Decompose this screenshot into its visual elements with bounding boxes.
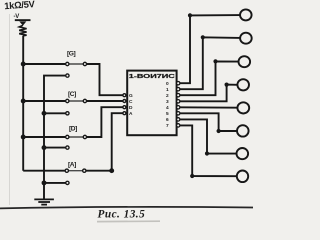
terminal T5 bbox=[237, 125, 249, 136]
svg-text:[A]: [A] bbox=[68, 162, 76, 169]
wire out6 bbox=[180, 119, 237, 153]
wire out5 bbox=[180, 113, 237, 131]
wire out3 bbox=[180, 85, 238, 102]
node gnd-stub3 bbox=[42, 145, 47, 150]
svg-text:D: D bbox=[129, 105, 133, 111]
wire out0 bbox=[180, 15, 240, 83]
svg-text:Рис. 13.5: Рис. 13.5 bbox=[98, 209, 146, 221]
wire out4 bbox=[180, 106, 238, 108]
node out5 bend bbox=[217, 129, 221, 133]
node out1 bend bbox=[201, 35, 205, 39]
svg-text:C: C bbox=[129, 99, 133, 105]
stub contact 3 bbox=[66, 146, 69, 149]
caption rule bbox=[0, 207, 253, 209]
svg-text:[D]: [D] bbox=[69, 126, 77, 133]
node bus-G bbox=[21, 62, 26, 67]
svg-text:6: 6 bbox=[166, 117, 169, 123]
wire out7 bbox=[180, 125, 237, 176]
wire bus to switch G bbox=[23, 63, 65, 65]
svg-text:0: 0 bbox=[166, 81, 169, 87]
wire bus to switch C bbox=[23, 100, 65, 102]
svg-text:3: 3 bbox=[166, 99, 169, 105]
stub contact 1 bbox=[66, 74, 69, 77]
wire stub3 bbox=[44, 147, 66, 149]
node out3 bend bbox=[225, 83, 229, 87]
scan smudge under caption bbox=[97, 220, 160, 222]
node bus-C bbox=[21, 99, 26, 104]
wire switch D to pin D bbox=[87, 107, 123, 137]
paper background bbox=[0, 0, 253, 226]
svg-text:1-ВОИ7ИС: 1-ВОИ7ИС bbox=[129, 74, 175, 80]
wire stub2 bbox=[44, 112, 66, 114]
svg-text:1: 1 bbox=[166, 87, 169, 93]
node gnd-stub2 bbox=[42, 111, 47, 116]
supply -V terminal bbox=[14, 14, 31, 26]
terminal T0 bbox=[240, 9, 252, 20]
terminal T2 bbox=[239, 56, 251, 67]
node A-corner bbox=[109, 168, 114, 173]
wire switch A to pin A bbox=[86, 113, 122, 171]
ground bus (second bus) bbox=[44, 76, 66, 199]
wire bus to switch A bbox=[23, 170, 65, 172]
stub contact 2 bbox=[66, 112, 69, 115]
svg-text:4: 4 bbox=[166, 105, 169, 111]
node bus-D bbox=[21, 135, 26, 140]
wire out1 bbox=[180, 37, 241, 89]
node out7 bend bbox=[190, 174, 194, 178]
terminal T1 bbox=[240, 33, 252, 44]
IC output pin numbers bbox=[166, 81, 169, 129]
terminal T3 bbox=[237, 79, 249, 90]
svg-text:[G]: [G] bbox=[67, 51, 76, 58]
IC input pin names bbox=[129, 93, 133, 117]
wire switch G to pin G bbox=[87, 64, 123, 95]
terminal T4 bbox=[237, 102, 249, 113]
pin D bubble bbox=[123, 106, 126, 109]
svg-text:2: 2 bbox=[166, 93, 169, 99]
stub contact 4 bbox=[66, 181, 69, 184]
ground bbox=[34, 199, 54, 204]
svg-text:5: 5 bbox=[166, 111, 169, 117]
wire stub4 bbox=[44, 182, 66, 184]
svg-text:G: G bbox=[129, 93, 133, 99]
node out6 bend bbox=[205, 151, 209, 155]
resistor R1 1kΩ bbox=[19, 25, 26, 36]
node out2 bend bbox=[213, 59, 217, 63]
decoder IC U1 body bbox=[127, 71, 176, 136]
svg-text:[C]: [C] bbox=[68, 91, 76, 98]
pin A bubble bbox=[123, 112, 126, 115]
terminal T6 bbox=[237, 148, 249, 159]
wire bus to switch D bbox=[23, 136, 65, 138]
node out0 bend bbox=[188, 13, 192, 17]
svg-text:7: 7 bbox=[166, 123, 169, 129]
terminal T7 bbox=[237, 171, 248, 183]
wire out2 bbox=[180, 61, 239, 95]
switch SC contacts bbox=[66, 99, 87, 102]
wire switch C to pin C bbox=[87, 100, 123, 102]
output pin bubbles bbox=[177, 82, 180, 128]
svg-text:-V: -V bbox=[14, 14, 20, 20]
svg-text:A: A bbox=[129, 111, 133, 117]
scan fold artifact line bbox=[9, 14, 11, 205]
pin G bubble bbox=[123, 94, 126, 97]
switch SD contacts bbox=[66, 135, 87, 138]
switch SA contacts bbox=[65, 169, 86, 172]
node gnd-stub4 bbox=[42, 180, 47, 185]
pin C bubble bbox=[123, 100, 126, 103]
switch SG contacts bbox=[66, 62, 87, 65]
wire main +V bus bbox=[22, 36, 24, 171]
